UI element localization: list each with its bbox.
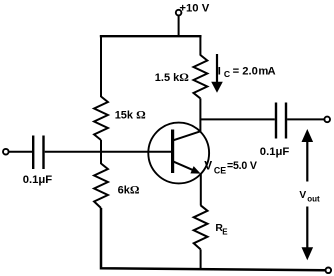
- svg-text:0.1μF: 0.1μF: [23, 174, 53, 186]
- svg-text:CE: CE: [214, 166, 226, 176]
- capacitor C2 0.1uF plates: [276, 103, 286, 139]
- resistor R2 6k ohm: [94, 164, 108, 209]
- svg-text:= 2.0: = 2.0: [233, 65, 258, 77]
- svg-text:=5.0 V: =5.0 V: [227, 160, 257, 172]
- svg-text:0.1μF: 0.1μF: [260, 146, 290, 158]
- transistor Q1 collector lead: [173, 131, 201, 140]
- wire collector node to output cap: [200, 118, 275, 120]
- svg-text:out: out: [307, 195, 320, 204]
- transistor Q1 emitter lead with arrow: [173, 161, 194, 170]
- resistor R1 15k ohm: [94, 97, 108, 141]
- svg-text:mA: mA: [258, 65, 275, 77]
- transistor Q1 circle: [148, 123, 209, 184]
- wire top bus: [100, 35, 202, 37]
- Vout arrow upper segment with arrowhead: [306, 141, 308, 182]
- svg-text:15k Ω: 15k Ω: [115, 108, 146, 122]
- svg-text:1.5 kΩ: 1.5 kΩ: [155, 70, 189, 84]
- node +10 V terminal: [176, 10, 182, 16]
- resistor RE: [194, 205, 208, 249]
- wire 1.5k to collector node: [199, 98, 201, 131]
- wire from +10V terminal down to top bus: [178, 15, 180, 37]
- svg-text:V: V: [299, 190, 306, 201]
- capacitor C1 0.1uF plates: [33, 136, 43, 170]
- wire C1 to base (through junction at x=101): [45, 151, 172, 153]
- svg-text:6kΩ: 6kΩ: [118, 183, 140, 197]
- wire RE to bottom bus: [200, 249, 202, 269]
- svg-text:+10 V: +10 V: [179, 3, 209, 15]
- node output terminal: [324, 117, 330, 123]
- wire emitter to RE: [200, 174, 202, 206]
- wire left branch mid (15k to 6k through base junction): [100, 140, 102, 164]
- current arrow IC: [216, 54, 218, 83]
- svg-text:V: V: [204, 158, 212, 172]
- wire input terminal to C1: [9, 151, 32, 153]
- node input terminal: [3, 149, 9, 155]
- wire C2 to output terminal: [287, 118, 325, 120]
- transistor Q1 base bar: [171, 130, 174, 174]
- svg-text:C: C: [224, 69, 230, 79]
- wire right branch top (bus to 1.5k): [199, 35, 201, 56]
- Vout arrow lower segment with arrowhead: [306, 207, 308, 249]
- wire left branch bottom + bottom bus: [101, 208, 326, 270]
- svg-text:I: I: [218, 65, 221, 77]
- svg-text:E: E: [222, 228, 228, 237]
- resistor R3 1.5k ohm: [194, 55, 208, 98]
- wire left branch top (bus to 15k): [100, 35, 102, 97]
- node bottom right terminal: [326, 268, 332, 274]
